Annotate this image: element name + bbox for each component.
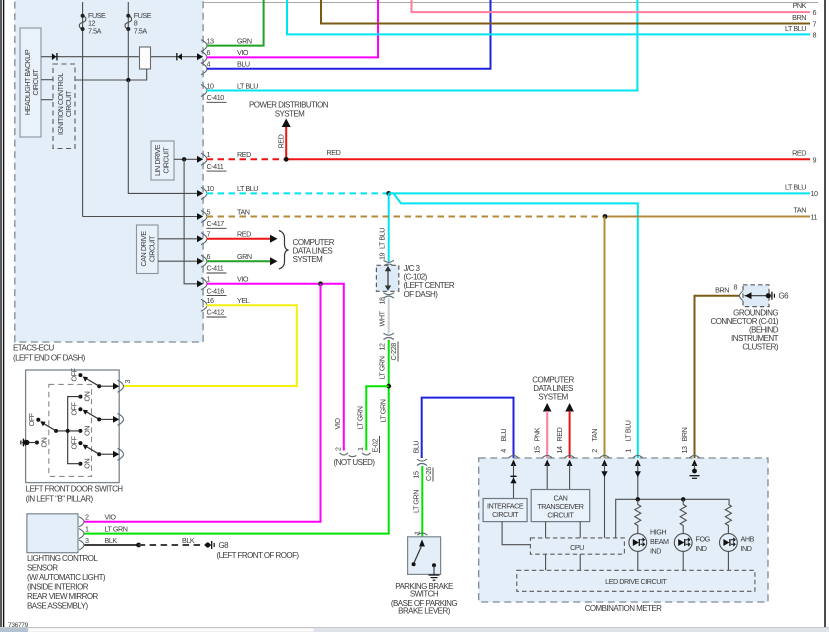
node LIN junction [182,157,186,161]
bottom hairline [0,626,829,628]
connector C-410 pin 4 [201,60,250,75]
label LEFT FRONT DOOR SWITCH [26,485,124,504]
connector C-416 pin 1 VIO [197,275,249,296]
wire ignition output [75,69,147,80]
svg-text:14: 14 [555,446,564,454]
svg-text:4: 4 [207,60,211,69]
scrollbar corner [0,628,28,632]
wire BLU combination meter to C-26 [422,398,514,458]
wire LT BLU pin 10 C-410 [207,0,638,91]
svg-text:OFF: OFF [70,401,79,415]
svg-text:LT BLU: LT BLU [378,228,387,249]
grounding connector C-01 box [743,285,769,307]
label 12 C-228 rotated [378,342,399,362]
wire LT GRN C-26 to parking brake switch [421,466,423,537]
wire LT BLU branch to combination meter [389,193,638,458]
wire RED solid to right edge 9 [286,158,810,160]
CPU block [530,538,624,554]
svg-text:SYSTEM: SYSTEM [293,255,323,264]
LIN drive circuit block U-LIN [151,141,174,180]
svg-text:IND: IND [696,544,707,553]
svg-text:18: 18 [378,297,387,305]
svg-text:RED: RED [555,427,564,441]
diode D3 interface [510,476,516,484]
svg-text:RED: RED [237,230,251,239]
wire VIO branch to lighting sensor [85,284,321,522]
svg-text:CPU: CPU [570,543,584,552]
meter pin 4 entry [499,429,519,466]
meter pin 13 entry [680,427,700,466]
svg-text:(LEFT FRONT OF ROOF): (LEFT FRONT OF ROOF) [217,551,300,560]
wire headlight to ignition stub 1 [41,79,53,81]
wire LED 3 to LED drive [727,551,729,570]
interface circuit block [483,499,527,522]
svg-text:ON: ON [83,391,92,401]
svg-text:OFF: OFF [70,435,79,449]
node BLK junction [136,543,141,548]
svg-text:BRAKE LEVER): BRAKE LEVER) [398,606,451,615]
wire CAN output to pin 7 [158,238,197,240]
wire ON bus [68,397,81,464]
ground symbol door switch [21,439,26,447]
node ground dot [24,440,29,445]
svg-text:19: 19 [378,252,387,260]
fuse F8 label [134,11,152,36]
svg-text:BRN: BRN [680,427,689,441]
svg-text:LT GRN: LT GRN [412,490,421,513]
meter pin 1 entry [623,420,643,466]
ground meter pin 13 [690,464,700,478]
svg-text:RED: RED [277,134,286,148]
headlight backup circuit block [20,28,41,137]
wire BLK dashed to ground [139,544,208,546]
svg-text:1: 1 [623,449,632,453]
node bus junction [66,429,70,433]
svg-text:COMBINATION METER: COMBINATION METER [585,604,662,613]
wire LT GRN main [85,340,389,534]
svg-text:CIRCUIT: CIRCUIT [492,510,519,519]
diode arrow pin 2 [601,471,607,477]
wire LIN output to pin 1 [174,158,197,160]
svg-text:CLUSTER): CLUSTER) [742,343,778,352]
ground parking brake switch [429,575,440,580]
connector C-410 pin 6 [197,48,249,63]
node LT GRN junction [386,384,391,389]
wire VIO pin 6 [207,0,379,57]
svg-text:G8: G8 [219,541,230,550]
wire resistor stub 2 [682,499,684,504]
svg-text:(INSIDE INTERIOR: (INSIDE INTERIOR [27,583,89,592]
svg-text:LT GRN: LT GRN [105,524,128,533]
svg-text:(NOT USED): (NOT USED) [334,458,376,467]
svg-text:CIRCUIT: CIRCUIT [148,235,157,262]
svg-text:POWER DISTRIBUTION: POWER DISTRIBUTION [249,101,329,110]
svg-text:LT GRN: LT GRN [379,399,388,422]
switch SW3 [70,435,124,468]
wire YEL pin 16 to door switch [124,305,297,386]
wire TAN solid to right edge 11 [605,216,810,218]
wire LT BLU to right edge 8 [287,0,810,34]
svg-text:SWITCH: SWITCH [410,590,439,599]
svg-text:736779: 736779 [8,622,29,629]
connector arcs J/C3 bottom [384,293,394,299]
svg-text:LT BLU: LT BLU [237,81,258,90]
label 15 C-26 rotated [412,467,434,482]
svg-text:LT BLU: LT BLU [785,24,806,33]
svg-text:CIRCUIT: CIRCUIT [64,90,73,117]
svg-text:8: 8 [734,282,738,291]
svg-text:7: 7 [813,20,817,29]
svg-text:10: 10 [207,81,215,90]
wire CPU to LED drive 2 [579,554,581,570]
arrow to power distribution system [282,119,291,128]
wire BRN to right edge 7 [321,0,810,24]
wire LIN bus to pin 1 VIO [184,159,197,283]
svg-text:RED: RED [327,148,341,157]
wire interface to CPU [502,522,530,545]
connector C-228 arcs [384,333,394,340]
wire pin 15 to CAN transceiver [546,464,548,490]
wire WHT pin 18 [388,299,390,334]
svg-text:CIRCUIT: CIRCUIT [162,146,171,173]
svg-text:LT BLU: LT BLU [785,182,806,191]
node RED junction [284,157,289,162]
node LED feed 1 [636,497,640,501]
fuse 12 wire [82,2,84,217]
connector C-412 pin 16 YEL [201,296,250,317]
svg-text:C-26: C-26 [424,467,433,481]
wire LT BLU branch down to J/C 3 [388,193,390,261]
resistor R1 [635,499,641,533]
connector arcs J/C3 top [384,260,394,266]
wire TAN down to combination meter [604,217,606,459]
svg-text:ON: ON [40,437,49,447]
svg-text:LIGHTING CONTROL: LIGHTING CONTROL [27,554,98,563]
connector E-02 pins [340,453,371,457]
svg-text:10: 10 [207,184,215,193]
meter pin 2 entry [590,429,610,466]
left front door switch box [26,370,120,483]
svg-text:CIRCUIT: CIRCUIT [547,511,574,520]
svg-text:(IN LEFT "B" PILLAR): (IN LEFT "B" PILLAR) [26,495,94,504]
LED fog indicator [674,534,692,552]
connector C-411 pin 6 GRN [197,252,252,273]
wire pin 14 to CAN transceiver [569,464,571,490]
resistor R3 [725,504,731,533]
svg-text:LT BLU: LT BLU [237,184,258,193]
wire switch ground [27,442,37,444]
svg-text:VIO: VIO [333,418,342,430]
page left border double line [1,0,4,627]
svg-text:BLK: BLK [105,536,118,545]
svg-text:12: 12 [378,343,387,351]
svg-text:SYSTEM: SYSTEM [275,110,305,119]
CAN drive circuit block U-CAN [137,225,159,274]
wire BLK solid [85,544,139,546]
svg-text:E-02: E-02 [371,439,380,453]
wire headlight to ignition stub 2 [41,99,53,101]
wire ON bus middle stub [56,430,80,432]
label AHB IND [741,535,755,554]
svg-text:OFF: OFF [27,412,36,426]
label POWER DISTRIBUTION SYSTEM [249,101,329,119]
svg-text:BLU: BLU [499,429,508,442]
svg-text:TAN: TAN [237,207,250,216]
svg-text:ON: ON [83,426,92,436]
svg-text:GRN: GRN [237,36,252,45]
svg-text:1: 1 [356,447,365,451]
wire fuse12 to pin 5 [83,216,197,218]
svg-text:C-410: C-410 [207,93,225,102]
label LIGHTING CONTROL SENSOR [27,554,106,611]
svg-text:RED: RED [792,149,806,158]
svg-text:7: 7 [207,230,211,239]
scrollbar track [314,628,829,632]
svg-text:IND: IND [650,547,661,556]
label FOG IND [696,535,711,554]
wire LT BLU dashed pin 10 [207,192,389,194]
svg-text:10: 10 [811,189,819,198]
fuse 8 wire [127,2,129,80]
wire GRN pin 6 to computer data lines [207,260,272,262]
wire fuse8 to pin 10 [128,80,197,193]
resistor R2 [680,504,686,533]
svg-text:LED DRIVE CIRCUIT: LED DRIVE CIRCUIT [605,577,667,586]
svg-text:ON: ON [83,459,92,469]
svg-text:OF DASH): OF DASH) [404,290,439,299]
diode arrow pin 1 [635,471,641,477]
svg-text:9: 9 [813,155,817,164]
label 18 WHT rotated [378,297,387,327]
connector pin 10 LT BLU mid [197,184,258,199]
LED high beam indicator [629,534,647,552]
label HIGH BEAM IND [650,528,669,556]
svg-text:C-417: C-417 [207,219,225,228]
meter pin 14 entry [555,427,575,466]
switch SW2 [70,401,124,435]
svg-text:AHB: AHB [741,535,755,544]
wire LT BLU solid to right edge 10 [389,192,810,194]
connector C-417 pin 5 [197,207,250,228]
svg-text:11: 11 [811,212,818,221]
svg-text:RED: RED [237,150,251,159]
svg-text:6: 6 [813,8,817,17]
diode D1 [52,53,58,60]
fuse F12 symbol [79,14,86,31]
LED AHB indicator [720,534,738,552]
svg-text:2: 2 [590,449,599,453]
label TAN 11 [794,206,818,222]
svg-text:C-412: C-412 [207,308,225,317]
svg-text:BLU: BLU [412,441,421,454]
svg-text:6: 6 [207,252,211,261]
arrow PNK up [543,403,552,412]
wire BRN meter pin 13 to grounding connector [695,296,741,458]
svg-text:BRN: BRN [715,285,729,294]
svg-text:VIO: VIO [237,275,249,284]
label LT BLU 8 [785,24,817,40]
parking brake switch box S2 [408,537,441,575]
label LT BLU 10 [785,182,818,198]
wire pin 4 to diode [513,464,515,499]
wire CAN output to pin 6 [158,260,197,262]
svg-text:(W/ AUTOMATIC LIGHT): (W/ AUTOMATIC LIGHT) [27,573,106,582]
wire CAN out 2 to CPU [579,522,581,538]
diode D2 [176,53,182,60]
svg-text:G6: G6 [779,292,790,301]
svg-text:BEAM: BEAM [650,537,669,546]
svg-text:7.5A: 7.5A [134,26,148,35]
connector sensor pin 2 [79,513,116,527]
svg-text:TAN: TAN [590,429,599,442]
wire RED dashed pin 1 [207,158,287,160]
svg-text:2: 2 [85,513,89,522]
svg-text:16: 16 [207,296,215,305]
label 19 LT BLU rotated [378,228,387,260]
connector C-411 pin 1 [197,150,251,171]
CAN transceiver circuit block [531,490,590,522]
svg-text:1: 1 [207,275,211,284]
svg-text:LT GRN: LT GRN [356,406,365,429]
svg-text:BLU: BLU [237,60,250,69]
ground G8 [205,541,214,549]
svg-text:ETACS-ECU: ETACS-ECU [13,344,54,353]
wire GRN pin 13 [207,0,264,46]
svg-text:LT GRN: LT GRN [378,356,387,379]
brace computer data lines [279,231,289,270]
svg-text:(LEFT END OF DASH): (LEFT END OF DASH) [13,354,86,363]
svg-text:C-228: C-228 [389,343,398,361]
wire headlight output to pin 6 [41,56,197,58]
connector arc C-01 [740,290,745,301]
wire LED 2 to LED drive [682,551,684,570]
svg-text:C-411: C-411 [207,162,224,171]
node VIO junction [318,281,323,286]
fuse F12 label [88,11,106,36]
svg-text:15: 15 [533,446,542,454]
svg-text:VIO: VIO [105,513,117,522]
wire RED pin 7 to computer data lines [207,238,272,240]
svg-text:OFF: OFF [70,367,79,381]
lighting control sensor box [27,514,78,553]
svg-text:REAR VIEW MIRROR: REAR VIEW MIRROR [27,592,99,601]
scrollbar thumb [28,628,314,632]
svg-text:C-416: C-416 [207,286,225,295]
wire LED feed line [616,499,729,538]
connector sensor pin 1 [79,524,128,538]
svg-text:SENSOR: SENSOR [27,564,58,573]
node LT BLU junction [386,191,391,196]
node TAN junction [603,214,608,219]
wire TAN dashed pin 5 [207,216,606,218]
label J/C 3 [404,264,455,299]
svg-text:WHT: WHT [378,310,387,326]
label RED 9 [792,149,816,165]
svg-text:1: 1 [85,524,89,533]
svg-text:C-411: C-411 [207,264,224,273]
wire LT GRN branch to E-02 [366,386,388,450]
label COMPUTER DATA LINES SYSTEM meter [532,375,574,401]
connector C-410 pin 10 [201,81,258,102]
svg-text:FOG: FOG [696,535,711,544]
switch SW4 common [27,412,58,447]
wire pin 2 to CPU [604,464,606,538]
svg-text:5: 5 [207,207,211,216]
svg-text:3: 3 [85,536,89,545]
svg-text:BRN: BRN [792,13,806,22]
svg-text:4: 4 [499,449,508,453]
svg-text:YEL: YEL [237,296,250,305]
connector arc parking switch [417,533,427,535]
label BRN 8 [715,282,737,294]
label COMPUTER DATA LINES SYSTEM mid [293,238,335,264]
svg-text:LT BLU: LT BLU [623,420,632,441]
svg-text:8: 8 [813,30,817,39]
connector C-26 arcs [417,459,427,466]
svg-text:BASE ASSEMBLY): BASE ASSEMBLY) [27,602,89,611]
wire RED to meter pin 14 [569,411,571,458]
arrow RED up [565,403,574,412]
arrow GRN data line [270,257,278,265]
svg-text:VIO: VIO [237,48,249,57]
wire pin 1 to LED feed [637,464,639,499]
svg-text:2: 2 [334,447,343,451]
svg-text:CIRCUIT: CIRCUIT [31,68,40,95]
svg-text:7.5A: 7.5A [88,26,102,35]
label E-02 pins rotated [334,436,380,453]
wire CAN out 1 to CPU [545,522,547,538]
svg-text:13: 13 [207,36,215,45]
svg-text:1: 1 [207,150,211,159]
node fuse8 junction [126,78,130,82]
relay block [140,47,151,69]
label PARKING BRAKE SWITCH [391,582,458,615]
ETACS-ECU module box [15,0,203,342]
fuse F8 symbol [125,14,132,31]
top grey rule [203,2,818,4]
label GROUNDING CONNECTOR [710,308,778,351]
wire BLU pin 4 [207,0,491,69]
svg-text:HIGH: HIGH [650,528,666,537]
svg-text:IND: IND [741,544,752,553]
svg-text:3: 3 [123,380,132,384]
wire RED riser to power distribution [285,126,287,160]
page right border line [824,0,826,627]
svg-text:GRN: GRN [237,252,252,261]
LED drive circuit block [517,570,755,591]
node LED feed 2 [681,497,685,501]
ETACS-ECU label [13,344,86,363]
svg-text:6: 6 [207,48,211,57]
svg-text:BLK: BLK [182,536,195,545]
svg-text:13: 13 [680,446,689,454]
wire PNK to right edge 6 [412,0,811,12]
wire PNK to meter pin 15 [546,411,548,458]
connector pin 7 RED [197,230,251,245]
door switch inner dashed box [49,384,92,476]
wire VIO pin 1 C-416 to E-02 [207,284,344,451]
junction connector J/C 3 (C-102) [376,265,398,291]
svg-text:PNK: PNK [533,427,542,441]
connector sensor pin 3 [79,536,195,550]
ignition control circuit block [53,64,75,149]
svg-text:SYSTEM: SYSTEM [538,393,568,402]
wire CPU to LED drive 1 [545,554,547,570]
switch SW1 [70,367,133,401]
label BRN 7 [792,13,816,29]
wire LED 1 to LED drive [637,551,639,570]
connector C-410 pin 13 [201,36,252,51]
